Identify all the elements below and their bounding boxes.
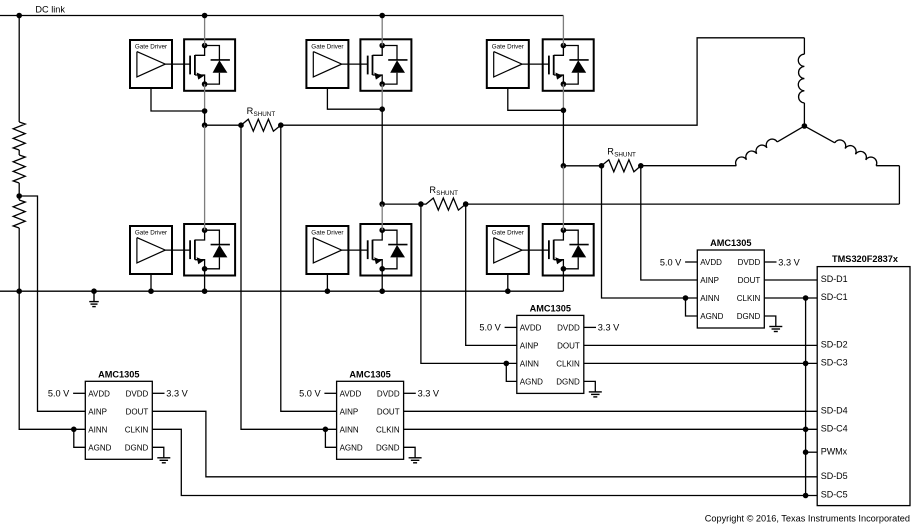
svg-text:DGND: DGND — [737, 312, 761, 321]
svg-text:DOUT: DOUT — [377, 407, 400, 416]
wire divider bottom lead — [18, 228, 20, 291]
node phase 2 on positive rail — [379, 13, 385, 19]
wire gate driver U3H return — [508, 88, 564, 110]
svg-text:AINP: AINP — [88, 407, 107, 416]
op-amp U2 AMC1305 (phase 1 sense) DVDD 3.3 V supply — [404, 392, 416, 394]
wire U1 DOUT to SD-D5 — [152, 411, 817, 477]
wire divider to tap — [18, 183, 20, 200]
svg-text:AMC1305: AMC1305 — [710, 238, 751, 248]
svg-text:AMC1305: AMC1305 — [349, 369, 390, 379]
svg-text:AGND: AGND — [88, 443, 111, 452]
node phase 2 output junction — [379, 201, 385, 207]
wire gate driver U2H return — [327, 88, 382, 109]
svg-text:AGND: AGND — [340, 443, 363, 452]
op-amp U1 AMC1305 (DC-link sense) DVDD 3.3 V supply — [152, 392, 164, 394]
svg-text:SD-C5: SD-C5 — [821, 490, 848, 500]
svg-text:DOUT: DOUT — [557, 341, 580, 350]
wire U4 CLKIN to SD-C1 — [765, 297, 818, 299]
svg-text:DOUT: DOUT — [738, 276, 761, 285]
gate driver U1H (phase 1 high side) — [130, 40, 172, 88]
node phase 1 gate-return junction — [202, 108, 208, 114]
wire phase 3 down to Q3L collector — [562, 166, 564, 230]
wire gate driver U2H output to Q2H gate — [342, 63, 368, 65]
wire gate driver U3L return to negative rail — [507, 274, 509, 291]
wire phase 2 down to Q2L collector — [381, 204, 383, 230]
svg-text:CLKIN: CLKIN — [556, 359, 580, 368]
svg-text:3.3 V: 3.3 V — [598, 323, 620, 333]
node shunt R3 right terminal — [638, 163, 644, 169]
svg-text:5.0 V: 5.0 V — [48, 389, 70, 399]
svg-text:AVDD: AVDD — [700, 258, 722, 267]
wire clock distribution vertical (PWMx) — [805, 298, 807, 496]
wire phase 1 midpoint segment — [204, 111, 206, 125]
svg-text:5.0 V: 5.0 V — [299, 389, 321, 399]
wire gate driver U1L output to Q1L gate — [165, 249, 190, 251]
node clock junction SD-C3 — [803, 361, 809, 367]
wire U1 CLKIN to SD-C5 — [152, 429, 817, 495]
wire phase 1 to shunt — [205, 124, 241, 126]
op-amp U2 AMC1305 (phase 1 sense) DGND ground — [404, 447, 416, 458]
op-amp U4 AMC1305 (phase 3 sense) AINN-AGND tie — [683, 295, 689, 301]
wire U2 CLKIN to SD-C4 — [404, 428, 818, 430]
svg-text:CLKIN: CLKIN — [376, 425, 400, 434]
svg-text:3.3 V: 3.3 V — [166, 389, 188, 399]
svg-text:AINP: AINP — [340, 407, 359, 416]
gate driver U3L (phase 3 low side) — [487, 226, 529, 274]
node U1L return on negative rail — [148, 288, 154, 294]
node Q2L emitter on negative rail — [379, 288, 385, 294]
node shunt R1 left terminal — [238, 122, 244, 128]
node shunt R3 left terminal — [599, 163, 605, 169]
node phase 1 on positive rail — [202, 13, 208, 19]
svg-text:Gate Driver: Gate Driver — [492, 44, 524, 51]
resistor RSHUNT phase 3 — [602, 160, 641, 172]
svg-text:Gate Driver: Gate Driver — [135, 44, 167, 51]
svg-text:DVDD: DVDD — [126, 389, 149, 398]
transistor Q2L with antiparallel diode (phase 2 low side IGBT) — [360, 224, 411, 276]
svg-text:Gate Driver: Gate Driver — [311, 230, 343, 237]
wire gate driver U1H output to Q1H gate — [165, 63, 190, 65]
inductor motor winding B (left diagonal) — [777, 126, 804, 142]
op-amp U1 AMC1305 (DC-link sense) DGND ground — [152, 447, 164, 458]
svg-text:CLKIN: CLKIN — [125, 425, 149, 434]
wire shunt R1 left sense drop to U2 AINN — [241, 125, 337, 429]
node clock junction SD-C5 — [803, 493, 809, 499]
node phase 3 gate-return junction — [561, 108, 567, 114]
inductor motor winding A (vertical) — [803, 38, 805, 54]
op-amp U4 AMC1305 (phase 3 sense) DVDD 3.3 V supply — [764, 261, 776, 263]
svg-text:TMS320F2837x: TMS320F2837x — [832, 254, 899, 264]
svg-text:Gate Driver: Gate Driver — [135, 230, 167, 237]
svg-text:DGND: DGND — [556, 377, 580, 386]
resistor RSHUNT phase 2 — [421, 198, 466, 210]
svg-text:AMC1305: AMC1305 — [98, 369, 139, 379]
wire phase 3 to shunt — [563, 165, 601, 167]
svg-text:DOUT: DOUT — [126, 407, 149, 416]
svg-text:3.3 V: 3.3 V — [418, 389, 440, 399]
node phase 1 output junction — [202, 122, 208, 128]
svg-text:SHUNT: SHUNT — [436, 190, 458, 197]
wire Q3L emitter to negative rail — [562, 269, 564, 291]
wire divider mid lead — [18, 150, 20, 155]
wire Q2L emitter to negative rail — [381, 269, 383, 291]
wire winding C to right corner — [876, 165, 899, 167]
svg-text:DVDD: DVDD — [557, 323, 580, 332]
wire phase 3 midpoint segment — [562, 110, 564, 166]
node shunt R2 right terminal — [463, 201, 469, 207]
node divider bottom junction on rail — [16, 288, 22, 294]
wire phase 1 down to Q1L collector — [204, 125, 206, 230]
svg-text:AINN: AINN — [520, 359, 539, 368]
op-amp U3 AMC1305 (phase 2 sense) AINN-AGND tie — [504, 361, 510, 367]
wire motor right corner riser — [898, 166, 900, 204]
svg-text:5.0 V: 5.0 V — [479, 323, 501, 333]
node U2L return on negative rail — [325, 288, 331, 294]
node phase 3 output junction — [561, 163, 567, 169]
gate driver U2L (phase 2 low side) — [306, 226, 348, 274]
svg-text:AINN: AINN — [88, 425, 107, 434]
svg-text:AGND: AGND — [520, 377, 543, 386]
svg-text:AINP: AINP — [700, 276, 719, 285]
svg-text:SD-C1: SD-C1 — [821, 292, 848, 302]
wire Q2H emitter down to gate-return node — [381, 84, 383, 109]
wire U3 CLKIN to SD-C3 — [584, 362, 817, 364]
node clock junction SD-C4 — [803, 427, 809, 433]
node divider tap junction — [16, 193, 22, 199]
wire Q1H emitter down to gate-return node — [204, 84, 206, 111]
wire positive rail corner down to Q3H collector — [562, 16, 564, 46]
svg-text:Gate Driver: Gate Driver — [492, 230, 524, 237]
wire gate driver U3H output to Q3H gate — [522, 63, 549, 65]
wire shunt R2 right sense drop to U3 AINP — [466, 204, 517, 345]
svg-text:SD-D1: SD-D1 — [821, 274, 848, 284]
wire shunt R2 left sense drop to U3 AINN — [421, 204, 517, 363]
resistor divider upper R (bottom half) — [13, 155, 25, 183]
svg-text:SHUNT: SHUNT — [614, 152, 636, 159]
op-amp U3 AMC1305 (phase 2 sense) DGND ground — [584, 381, 596, 392]
wire shunt R3 right sense drop to U4 AINP — [641, 166, 698, 280]
transistor Q2H with antiparallel diode (phase 2 high side IGBT) — [360, 39, 411, 91]
svg-text:SD-D5: SD-D5 — [821, 471, 848, 481]
gate driver U3H (phase 3 high side) — [487, 40, 529, 88]
svg-text:AVDD: AVDD — [340, 389, 362, 398]
wire gate driver U3L output to Q3L gate — [522, 249, 549, 251]
wire gate driver U2L output to Q2L gate — [342, 249, 368, 251]
op-amp U1 AMC1305 (DC-link sense) AINN-AGND tie — [71, 427, 77, 433]
svg-text:DVDD: DVDD — [377, 389, 400, 398]
svg-text:SD-D2: SD-D2 — [821, 340, 848, 350]
op-amp U2 AMC1305 (phase 1 sense) AINN-AGND tie — [323, 427, 329, 433]
node Q1L emitter on negative rail — [202, 288, 208, 294]
wire shunt R1 right sense drop to U2 AINP — [281, 125, 337, 411]
ground symbol on negative rail — [93, 291, 95, 301]
wire Q1L emitter to negative rail — [204, 269, 206, 291]
wire U4 DOUT to SD-D1 — [765, 279, 818, 281]
svg-text:DGND: DGND — [125, 443, 149, 452]
resistor divider lower R — [13, 200, 25, 228]
svg-text:5.0 V: 5.0 V — [660, 257, 682, 267]
wire phase 2 midpoint segment — [381, 109, 383, 204]
wire DC link negative rail — [0, 290, 563, 292]
node clock junction SD-C1 — [803, 295, 809, 301]
svg-text:DGND: DGND — [376, 443, 400, 452]
wire PWMx stub — [806, 451, 818, 453]
svg-text:SHUNT: SHUNT — [254, 111, 276, 118]
wire gate driver U2L return to negative rail — [326, 274, 328, 291]
svg-text:SD-C4: SD-C4 — [821, 424, 848, 434]
wire phase 2 to shunt — [382, 203, 421, 205]
svg-text:AMC1305: AMC1305 — [530, 303, 571, 313]
node shunt R1 right terminal — [278, 122, 284, 128]
svg-text:AGND: AGND — [700, 312, 723, 321]
wire phase 1 output to motor (long horizontal + riser) — [281, 38, 805, 125]
svg-text:AINP: AINP — [520, 341, 539, 350]
transistor Q3H with antiparallel diode (phase 3 high side IGBT) — [543, 39, 594, 91]
svg-text:DVDD: DVDD — [738, 258, 761, 267]
wire phase 2 shunt to motor return — [466, 203, 900, 205]
wire phase 2 collector to positive rail — [381, 16, 383, 46]
svg-text:DC link: DC link — [35, 4, 65, 14]
wire U2 DOUT to SD-D4 — [404, 410, 818, 412]
wire DC link positive rail — [0, 15, 563, 17]
resistor RSHUNT phase 1 — [241, 119, 281, 131]
svg-text:3.3 V: 3.3 V — [778, 257, 800, 267]
wire divider tap to AINP drop — [19, 196, 85, 411]
resistor divider upper R (top half) — [13, 122, 25, 150]
node phase 2 gate-return junction — [379, 106, 385, 112]
node motor star point — [802, 123, 808, 129]
node clock junction PWMx — [803, 449, 809, 455]
wire Q3H emitter down to gate-return node — [562, 84, 564, 110]
inductor motor winding C (right diagonal) — [804, 126, 834, 143]
gate driver U2H (phase 2 high side) — [306, 40, 348, 88]
svg-text:SD-D4: SD-D4 — [821, 406, 848, 416]
svg-text:CLKIN: CLKIN — [737, 294, 761, 303]
wire divider upper lead — [18, 16, 20, 123]
transistor Q3L with antiparallel diode (phase 3 low side IGBT) — [543, 224, 594, 276]
svg-text:AVDD: AVDD — [88, 389, 110, 398]
transistor Q1L with antiparallel diode (phase 1 low side IGBT) — [184, 224, 235, 276]
gate driver U1L (phase 1 low side) — [130, 226, 172, 274]
wire shunt R3 left sense drop to U4 AINN — [602, 166, 698, 298]
svg-text:AINN: AINN — [700, 294, 719, 303]
op-amp U4 AMC1305 (phase 3 sense) DGND ground — [764, 316, 776, 327]
svg-text:SD-C3: SD-C3 — [821, 358, 848, 368]
node divider top junction — [16, 13, 22, 19]
wire rail to U1 AINN — [19, 291, 85, 429]
svg-text:AINN: AINN — [340, 425, 359, 434]
wire gate driver U1L return to negative rail — [150, 274, 152, 291]
svg-text:AVDD: AVDD — [520, 323, 542, 332]
wire gate driver U1H return — [151, 88, 205, 111]
wire phase 3 shunt to motor left winding — [641, 165, 737, 167]
node U3L return on negative rail — [505, 288, 511, 294]
svg-text:Gate Driver: Gate Driver — [311, 44, 343, 51]
svg-text:Copyright © 2016, Texas Instru: Copyright © 2016, Texas Instruments Inco… — [705, 513, 910, 523]
wire phase 1 collector to positive rail — [204, 16, 206, 46]
svg-text:PWMx: PWMx — [821, 446, 848, 456]
transistor Q1H with antiparallel diode (phase 1 high side IGBT) — [184, 39, 235, 91]
node shunt R2 left terminal — [418, 201, 424, 207]
wire U3 DOUT to SD-D2 — [584, 344, 817, 346]
op-amp U3 AMC1305 (phase 2 sense) DVDD 3.3 V supply — [584, 326, 596, 328]
